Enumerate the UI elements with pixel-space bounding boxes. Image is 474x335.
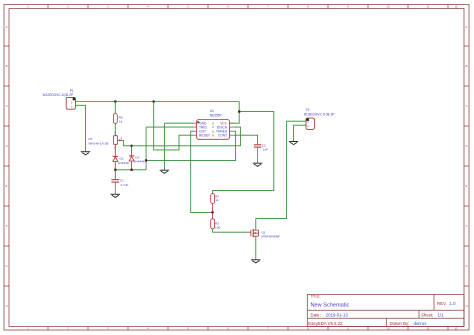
- ground at P1 pin2: [81, 152, 90, 155]
- wire junction to R3: [212, 212, 214, 218]
- svg-text:REV.: REV.: [437, 301, 447, 306]
- svg-text:1: 1: [27, 5, 29, 9]
- svg-text:WH148-1A-2B: WH148-1A-2B: [89, 142, 109, 146]
- svg-text:TITLE:: TITLE:: [311, 295, 321, 299]
- wire RESET to VCC rail: [154, 102, 193, 150]
- op-amp U1 NE555P: [193, 109, 233, 139]
- ground at C2: [253, 163, 262, 166]
- svg-text:7: 7: [267, 5, 269, 9]
- wire U1 GND to ground: [164, 123, 193, 170]
- wire Q1 source to ground: [255, 237, 257, 259]
- svg-text:2: 2: [121, 137, 123, 140]
- svg-text:dimrus: dimrus: [414, 321, 427, 326]
- capacitor C2 1uF: [254, 143, 268, 151]
- ground at C1: [111, 194, 120, 197]
- svg-text:F: F: [466, 224, 468, 228]
- wire D1 cathode to node: [114, 162, 116, 170]
- svg-text:E: E: [6, 184, 8, 188]
- svg-text:EasyEDA V5.8.22: EasyEDA V5.8.22: [308, 321, 343, 326]
- wire wiper to D2 / DISCH node: [122, 140, 131, 145]
- wire C1 to ground: [114, 182, 116, 194]
- connector P2 WJ2EDGVC-5.08-2P: [304, 108, 335, 129]
- svg-text:WJ2EDGVC-5.08-2P: WJ2EDGVC-5.08-2P: [304, 113, 335, 117]
- svg-text:Sheet:: Sheet:: [421, 312, 433, 317]
- diode D2 1N4448: [129, 156, 145, 164]
- wire R3 to Q1 gate: [213, 229, 251, 233]
- wire C2 to ground: [257, 147, 259, 163]
- junction VCC branch split: [238, 111, 240, 113]
- svg-text:12: 12: [455, 5, 458, 9]
- wire DISCH to wiper junction: [132, 127, 241, 146]
- junction D2 bottom: [131, 169, 133, 171]
- svg-text:NE555P: NE555P: [210, 114, 222, 118]
- svg-text:Drawn By:: Drawn By:: [390, 321, 410, 326]
- connector P1 WJ2EDGVC-5.08-2P: [43, 89, 76, 109]
- svg-text:1.0: 1.0: [450, 301, 457, 306]
- svg-text:U1: U1: [210, 109, 214, 113]
- svg-text:9: 9: [347, 5, 349, 9]
- svg-text:E: E: [466, 184, 468, 188]
- wire node to C1: [114, 170, 116, 180]
- svg-text:G: G: [465, 264, 467, 268]
- ground at Q1 source: [251, 260, 260, 263]
- wire P1 pin2 to ground: [76, 105, 86, 151]
- junction D1-C1: [114, 169, 116, 171]
- wire VCC branch to R2: [213, 112, 274, 194]
- wire D2 to node row: [131, 161, 133, 170]
- svg-text:G: G: [5, 264, 7, 268]
- svg-text:1/1: 1/1: [438, 312, 445, 317]
- svg-text:2.7nF: 2.7nF: [121, 183, 129, 187]
- svg-text:1k: 1k: [119, 119, 123, 123]
- svg-text:2: 2: [67, 5, 69, 9]
- ground at P2 pin2: [289, 142, 298, 145]
- svg-text:WJ2EDGVC-5.08-2P: WJ2EDGVC-5.08-2P: [43, 93, 74, 97]
- ground at U1 GND: [160, 170, 169, 173]
- junction TRIG/THRES node: [145, 159, 147, 161]
- wire rail drop to U1 VCC pin: [230, 102, 239, 124]
- wire pot bottom to D1: [114, 144, 116, 156]
- svg-text:3: 3: [107, 5, 109, 9]
- svg-text:D: D: [6, 144, 8, 148]
- svg-text:6: 6: [227, 5, 229, 9]
- svg-text:H: H: [6, 304, 8, 308]
- svg-text:RESET: RESET: [199, 134, 210, 138]
- svg-text:C: C: [6, 104, 8, 108]
- wire TRIG vertical: [146, 127, 193, 170]
- resistor R2 1k: [211, 194, 220, 204]
- svg-text:IRF640NPBF: IRF640NPBF: [262, 235, 281, 239]
- wire R2 to gate junction: [212, 203, 214, 212]
- svg-text:A: A: [6, 25, 8, 29]
- resistor R3 100: [211, 219, 221, 230]
- svg-text:10: 10: [387, 5, 390, 9]
- svg-text:C: C: [466, 104, 468, 108]
- svg-text:2019-01-13: 2019-01-13: [326, 312, 349, 317]
- wire THRES to node: [146, 131, 236, 160]
- wire VCC rail: [76, 101, 240, 103]
- svg-text:D1: D1: [120, 156, 124, 160]
- diode D1 1N4448: [113, 156, 129, 165]
- svg-text:CONT: CONT: [218, 134, 227, 138]
- svg-text:1k: 1k: [215, 198, 219, 202]
- wire R0 to potentiometer: [114, 123, 116, 135]
- junction wiper-D2-DISCH: [131, 145, 133, 147]
- resistor R0 1k: [113, 114, 122, 124]
- svg-text:F: F: [6, 224, 8, 228]
- wire node row D1-D2-C1: [115, 169, 146, 171]
- junction gate node: [212, 211, 214, 213]
- wire P2 pin2 to ground: [294, 125, 306, 141]
- svg-text:8: 8: [307, 5, 309, 9]
- capacitor C1 4.7nF: [111, 179, 128, 187]
- wire OUT to R2/R3 junction: [191, 131, 213, 212]
- svg-text:H: H: [466, 304, 468, 308]
- svg-text:4: 4: [147, 5, 149, 9]
- transistor Q1 IRF640NPBF: [251, 229, 280, 239]
- wire CONT to C2: [233, 135, 257, 144]
- svg-text:P2: P2: [306, 108, 310, 112]
- svg-text:D: D: [466, 144, 468, 148]
- svg-text:5: 5: [187, 5, 189, 9]
- svg-text:100: 100: [215, 226, 220, 230]
- junction on rail at R0: [114, 100, 116, 102]
- svg-text:B: B: [466, 64, 468, 68]
- wire P2 pin1 to Q1 drain: [256, 121, 306, 228]
- wire junction to D2: [131, 146, 133, 156]
- svg-text:New Schematic: New Schematic: [311, 303, 350, 309]
- svg-text:1N4448: 1N4448: [118, 161, 129, 165]
- wire rail to R0: [114, 102, 116, 114]
- svg-text:A: A: [466, 25, 468, 29]
- svg-text:1uF: 1uF: [262, 148, 267, 152]
- svg-text:11: 11: [427, 5, 430, 9]
- junction on rail at RESET branch: [153, 100, 155, 102]
- svg-text:Date:: Date:: [311, 312, 321, 317]
- svg-text:1N4448: 1N4448: [134, 160, 145, 164]
- potentiometer P0 WH148-1A-2B: [89, 131, 123, 150]
- svg-text:B: B: [6, 64, 8, 68]
